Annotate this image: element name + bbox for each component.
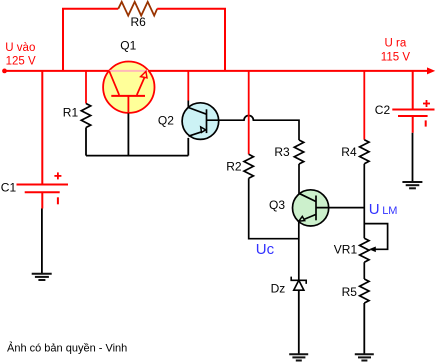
svg-text:Dz: Dz (271, 282, 286, 296)
resistor R1 (81, 104, 90, 128)
wire: C1 to ground (41, 209, 43, 274)
wire: emitter node bottom rail (86, 155, 188, 157)
wire: R4 bottom to U LM node and on to VR1 (363, 164, 365, 239)
svg-text:U: U (369, 201, 380, 218)
capacitor C2 (392, 100, 434, 133)
svg-text:U vào: U vào (5, 42, 35, 54)
wire: Q2 base to R3 (with jump over R2 line) (207, 116, 300, 141)
capacitor C1 (17, 172, 69, 208)
transistor Q3 (293, 190, 329, 226)
svg-text:Q3: Q3 (269, 198, 285, 212)
ground (C1) (32, 274, 52, 280)
wire: VR1 wiper loop (364, 224, 387, 250)
wire: R5 to ground (363, 303, 365, 354)
resistor R2 (244, 154, 253, 178)
wire: Q3 base to U LM node (316, 207, 364, 209)
wire: R1 bottom lead (85, 128, 87, 156)
wire: bus down to R2 (248, 71, 250, 155)
potentiometer VR1 (360, 238, 369, 262)
svg-text:R4: R4 (341, 145, 357, 159)
wire: Q2 emitter down to rail (187, 138, 189, 156)
svg-text:R6: R6 (131, 15, 147, 29)
svg-text:C1: C1 (1, 181, 17, 195)
svg-text:115 V: 115 V (381, 52, 411, 64)
wire: Dz to ground (298, 290, 300, 353)
transistor Q1 (103, 61, 154, 113)
wire: R2 bottom to Uc node (249, 178, 299, 238)
svg-text:125 V: 125 V (6, 55, 36, 67)
ground (R5) (355, 354, 374, 360)
svg-text:R3: R3 (274, 145, 290, 159)
svg-text:R2: R2 (226, 160, 242, 174)
wire: feedback loop right (R6 down to bus) (157, 9, 225, 71)
wire: bus down to Q2 collector (187, 71, 189, 101)
svg-text:Ảnh có bản quyền - Vinh: Ảnh có bản quyền - Vinh (7, 341, 127, 354)
resistor R4 (360, 140, 369, 164)
wire: feedback loop left (bus up to R6) (63, 9, 118, 71)
wire: C2 to ground (412, 133, 414, 181)
svg-text:Q2: Q2 (158, 114, 174, 128)
wire: bus down to R1 (85, 71, 87, 104)
svg-text:C2: C2 (375, 103, 391, 117)
ground (C2) (402, 182, 422, 188)
svg-text:LM: LM (382, 205, 397, 217)
ground (Dz) (289, 354, 308, 360)
svg-text:Uc: Uc (256, 241, 275, 258)
output arrow (427, 67, 435, 74)
svg-text:U ra: U ra (385, 38, 407, 50)
wire: bus down to C2 (412, 71, 414, 110)
resistor R5 (360, 279, 369, 303)
wire: R3 bottom to Q3 collector (298, 164, 300, 194)
wire: VR1 to R5 (363, 262, 365, 279)
zener diode Dz (291, 277, 306, 291)
VR1 wiper arrowhead (369, 247, 376, 253)
svg-text:Q1: Q1 (120, 39, 136, 53)
node: input terminal dot (2, 69, 7, 74)
resistor R6 (118, 2, 157, 16)
wire: bus down to C1 (41, 71, 43, 185)
svg-text:R5: R5 (342, 285, 358, 299)
wire: Q1 base down to rail (127, 113, 129, 155)
svg-text:R1: R1 (63, 105, 79, 119)
resistor R3 (294, 140, 303, 164)
wire: bus down to R4 (363, 71, 365, 140)
wire: Q3 emitter down to Dz (298, 221, 300, 280)
svg-text:VR1: VR1 (334, 243, 358, 257)
wire: main input/output bus (4, 70, 428, 72)
transistor Q2 (182, 103, 219, 140)
